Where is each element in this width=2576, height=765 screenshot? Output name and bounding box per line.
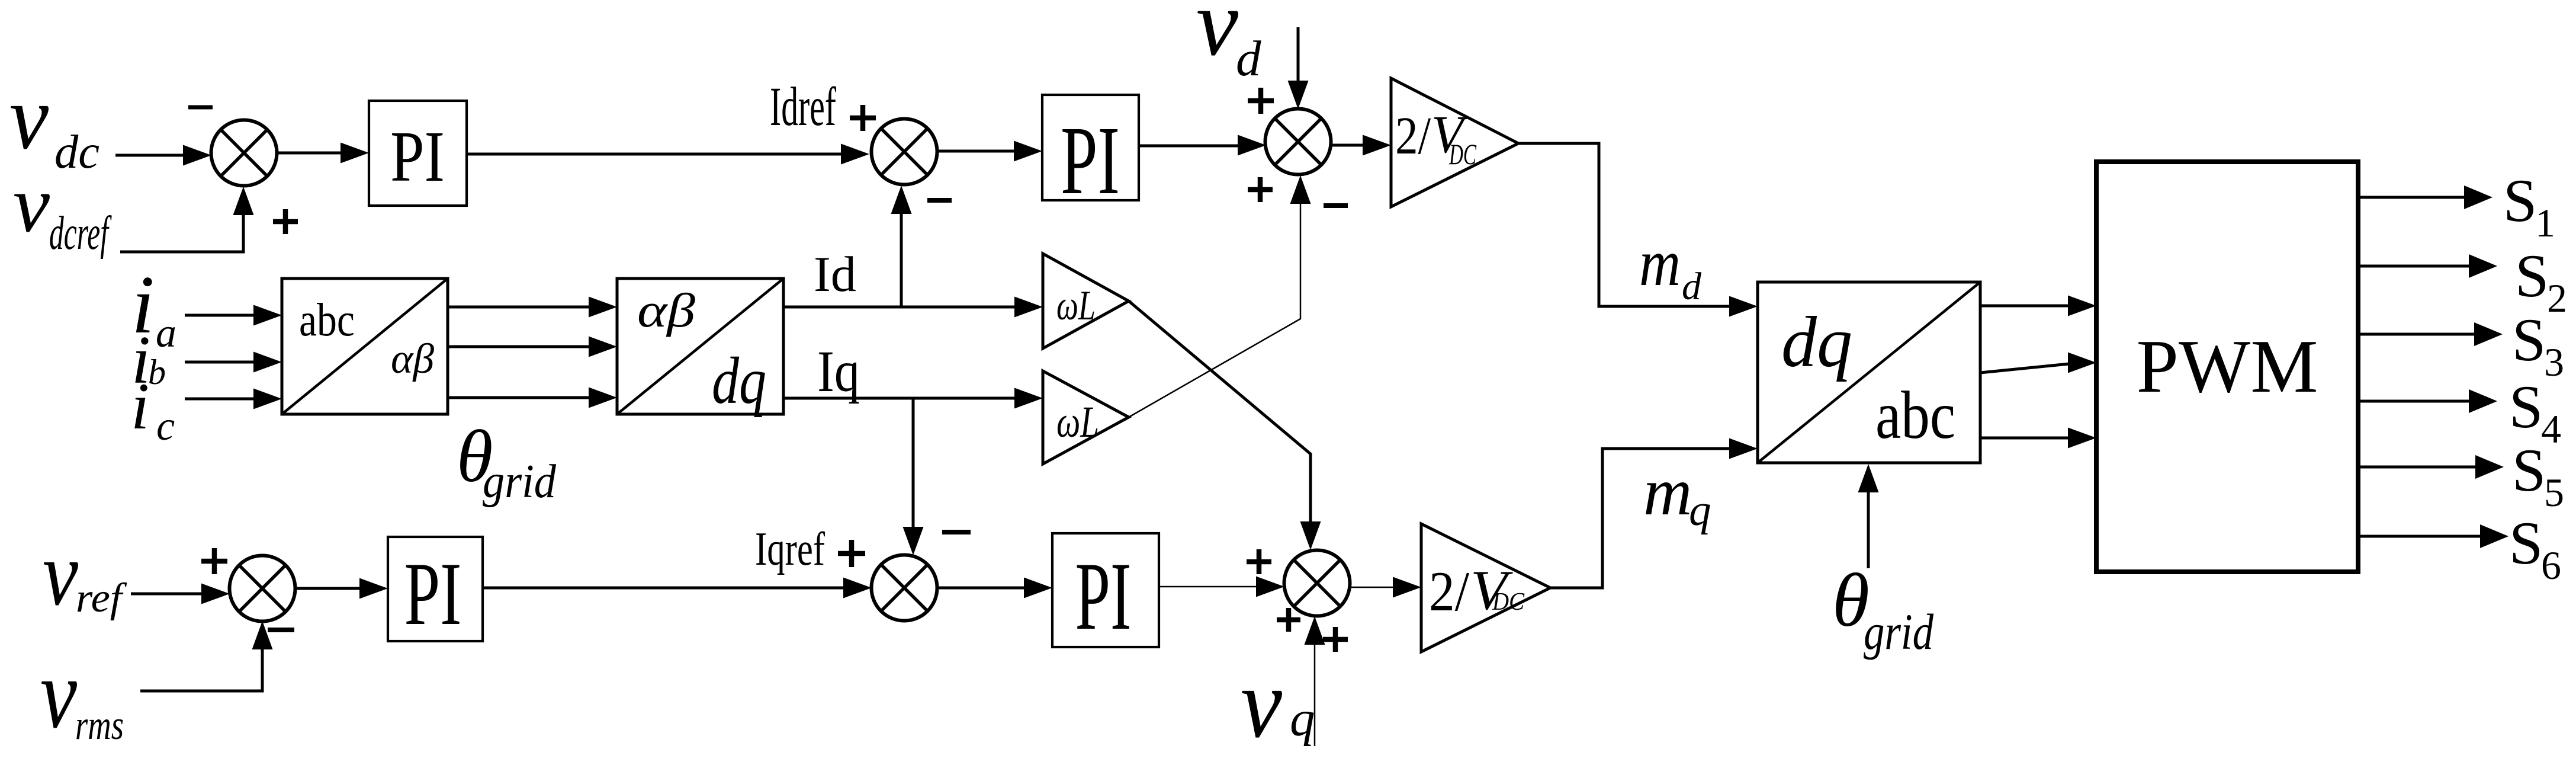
- wire gamma from abc block to ab-dq block: [448, 396, 590, 399]
- svg-text:ωL: ωL: [1056, 283, 1096, 329]
- svg-text:S: S: [2509, 510, 2543, 577]
- summing junction SJ2: [872, 119, 937, 185]
- plus sign upper at SJ3: [1248, 98, 1274, 104]
- wire i_c into abc block: [185, 398, 255, 401]
- plus sign lower-right at SJ6: [1323, 637, 1348, 642]
- svg-text:S: S: [2512, 437, 2546, 504]
- svg-text:dc: dc: [54, 126, 99, 178]
- svg-text:PWM: PWM: [2137, 324, 2318, 408]
- wire alpha from abc block to ab-dq block: [448, 306, 590, 309]
- svg-text:PI: PI: [390, 117, 445, 197]
- svg-text:3: 3: [2544, 340, 2564, 385]
- svg-text:v: v: [9, 66, 49, 168]
- svg-text:2: 2: [2547, 276, 2567, 321]
- svg-text:ωL: ωL: [1056, 398, 1099, 447]
- svg-text:d: d: [1236, 31, 1261, 87]
- svg-text:Id: Id: [814, 247, 856, 302]
- svg-text:DC: DC: [1492, 588, 1525, 616]
- svg-text:v: v: [40, 639, 77, 749]
- wire gate signal S6: [2358, 535, 2481, 538]
- wire SJ2 to PI2: [937, 150, 1015, 153]
- wire SJ3 to gain G1: [1331, 144, 1364, 147]
- minus sign at SJ4: [268, 628, 294, 632]
- wire SJ1 to PI1: [277, 152, 342, 155]
- wire gate signal S5: [2358, 466, 2477, 469]
- svg-text:grid: grid: [1864, 603, 1934, 660]
- PI controller PI4 (q-axis current): [1052, 533, 1159, 647]
- minus sign at SJ1: [188, 105, 213, 110]
- wire Id branch up to SJ2: [900, 214, 903, 307]
- svg-text:b: b: [148, 353, 166, 392]
- gain block ωL1: [1043, 254, 1129, 348]
- wire ωL1 output cross-coupling to SJ6: [1129, 301, 1311, 523]
- svg-text:S: S: [2509, 373, 2543, 441]
- summing junction SJ1: [211, 120, 277, 186]
- PI controller PI2 (d-axis current): [1042, 95, 1139, 200]
- wire PI3 output Iqref to SJ5: [483, 587, 843, 590]
- svg-text:5: 5: [2544, 470, 2564, 515]
- svg-text:v: v: [13, 160, 50, 249]
- wire PI2 to summing junction SJ3: [1139, 145, 1239, 148]
- svg-text:q: q: [1689, 486, 1711, 535]
- PWM modulator block: [2096, 162, 2358, 572]
- wire v_dc to summing junction SJ1: [115, 154, 184, 157]
- plus sign lower-left at SJ3: [1248, 187, 1273, 193]
- wire Iq from dq block to gain ωL2: [783, 397, 1016, 400]
- wire Id from dq block to gain ωL1: [783, 306, 1016, 309]
- transform block dq to abc: [1758, 282, 1980, 463]
- svg-text:d: d: [1682, 265, 1702, 308]
- minus sign at SJ3: [1324, 203, 1348, 208]
- svg-text:abc: abc: [299, 295, 355, 346]
- svg-text:q: q: [1290, 691, 1315, 747]
- svg-text:dq: dq: [712, 344, 766, 418]
- wire m_d from G1 to dq-abc block: [1518, 143, 1730, 306]
- wire PI4 to summing junction SJ6: [1159, 586, 1257, 588]
- wire c from dq-abc block to PWM: [1980, 437, 2069, 440]
- plus sign at SJ5: [838, 551, 865, 556]
- plus sign left at SJ6: [1247, 559, 1271, 565]
- svg-text:αβ: αβ: [391, 336, 435, 382]
- wire a from dq-abc block to PWM: [1980, 305, 2069, 308]
- svg-text:1: 1: [2535, 200, 2555, 245]
- svg-text:S: S: [2503, 167, 2537, 235]
- minus sign at SJ5: [942, 530, 971, 534]
- svg-text:m: m: [1639, 226, 1681, 300]
- wire v_d into SJ3: [1297, 27, 1300, 81]
- wire ωL2 output cross-coupling to SJ3: [1129, 204, 1300, 417]
- plus sign at SJ1: [273, 219, 298, 225]
- gain block ωL2: [1043, 371, 1129, 464]
- gain block G1 2/Vdc: [1391, 78, 1518, 207]
- wire i_a into abc block: [185, 314, 255, 317]
- svg-text:S: S: [2512, 306, 2546, 374]
- PI controller PI3 (ac voltage): [388, 537, 483, 641]
- plus sign at SJ2: [850, 116, 876, 121]
- svg-text:2/: 2/: [1395, 107, 1431, 165]
- svg-text:PI: PI: [1061, 106, 1120, 215]
- minus sign at SJ2: [927, 198, 952, 203]
- wire i_b into abc block: [185, 361, 255, 364]
- svg-text:Idref: Idref: [770, 76, 836, 137]
- summing junction SJ5: [872, 555, 937, 621]
- gain block G2 2/Vdc: [1421, 524, 1550, 652]
- summing junction SJ6: [1284, 550, 1350, 616]
- svg-text:dcref: dcref: [49, 207, 112, 260]
- wire gate signal S4: [2358, 400, 2470, 403]
- svg-text:PI: PI: [1075, 543, 1132, 650]
- svg-text:6: 6: [2541, 543, 2561, 588]
- wire v_rms to SJ4: [140, 649, 262, 691]
- wire SJ4 to PI3: [295, 587, 361, 590]
- transform block abc to alpha-beta: [282, 279, 448, 414]
- summing junction SJ4: [230, 556, 295, 622]
- wire SJ6 to gain G2: [1350, 587, 1394, 588]
- wire gate signal S1: [2358, 196, 2465, 199]
- svg-text:grid: grid: [483, 456, 557, 508]
- svg-text:ref: ref: [76, 575, 127, 621]
- plus sign lower-left at SJ6: [1277, 617, 1300, 623]
- svg-text:rms: rms: [75, 703, 124, 748]
- svg-text:abc: abc: [1875, 377, 1955, 453]
- svg-text:S: S: [2515, 242, 2549, 310]
- wire theta_grid into dq-abc block: [1867, 492, 1870, 568]
- svg-text:c: c: [156, 404, 175, 449]
- svg-text:i: i: [131, 370, 149, 443]
- wire Iq branch down to SJ5: [912, 398, 915, 527]
- svg-text:m: m: [1643, 454, 1692, 529]
- svg-text:dq: dq: [1781, 302, 1852, 382]
- wire b from dq-abc block to PWM: [1980, 364, 2069, 373]
- svg-text:v: v: [1241, 648, 1282, 758]
- wire gate signal S2: [2358, 265, 2470, 268]
- wire m_q from G2 to dq-abc block: [1550, 449, 1730, 588]
- wire v_ref to summing junction SJ4: [131, 593, 203, 596]
- svg-text:DC: DC: [1448, 137, 1476, 171]
- svg-text:αβ: αβ: [637, 283, 695, 337]
- summing junction SJ3: [1265, 109, 1331, 175]
- wire PI1 output Idref to SJ2: [467, 153, 841, 156]
- svg-text:PI: PI: [404, 544, 462, 644]
- svg-text:2/: 2/: [1429, 560, 1470, 623]
- svg-text:v: v: [1196, 0, 1239, 75]
- plus sign at SJ4: [201, 559, 227, 564]
- wire v_dcref to SJ1: [120, 215, 243, 252]
- wire SJ5 to PI4: [937, 587, 1025, 590]
- svg-text:a: a: [156, 311, 176, 356]
- wire v_q into SJ6: [1314, 644, 1316, 746]
- transform block alpha-beta to dq: [617, 279, 783, 414]
- PI controller PI1 (dc voltage): [369, 101, 467, 206]
- svg-text:Iqref: Iqref: [755, 523, 825, 575]
- svg-text:v: v: [43, 523, 78, 625]
- wire beta from abc block to ab-dq block: [448, 345, 590, 348]
- svg-text:Iq: Iq: [817, 338, 860, 404]
- wire gate signal S3: [2358, 333, 2475, 336]
